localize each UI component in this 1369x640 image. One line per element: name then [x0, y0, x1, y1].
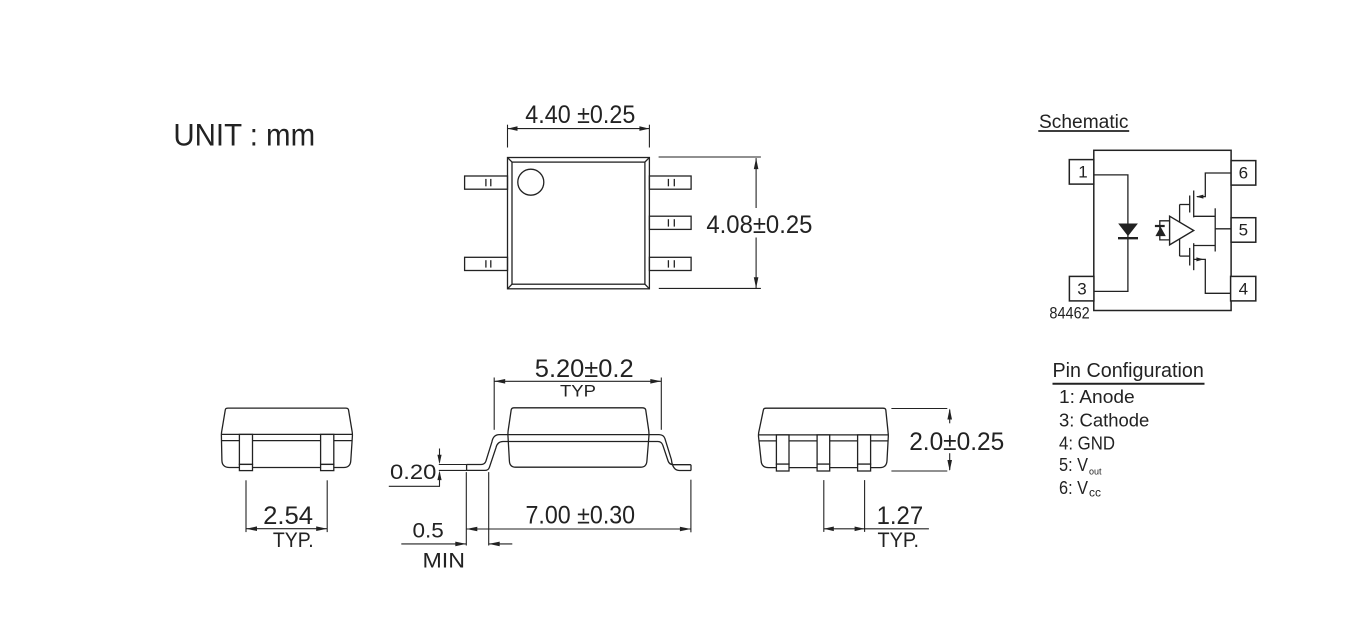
- dimension 5.20±0.2 TYP: [494, 355, 661, 430]
- top view right pin upper: [649, 176, 691, 189]
- top view right pin middle: [649, 216, 691, 229]
- wire pin1 to LED anode: [1094, 175, 1128, 292]
- dimension 4.08±0.25: [659, 157, 813, 288]
- svg-text:UNIT : mm: UNIT : mm: [173, 117, 315, 153]
- end view 2 pin left: [776, 435, 789, 471]
- LED D1: [1118, 224, 1138, 239]
- svg-text:84462: 84462: [1049, 305, 1089, 323]
- dimension 2.0±0.25: [891, 409, 1004, 472]
- pin 5 label: Vout: [1059, 454, 1102, 476]
- svg-text:3: 3: [1077, 280, 1086, 299]
- svg-text:5: 5: [1239, 221, 1248, 240]
- svg-text:0.5: 0.5: [413, 520, 444, 543]
- svg-text:7.00 ±0.30: 7.00 ±0.30: [526, 502, 636, 530]
- pin 3 box: [1069, 276, 1094, 301]
- schematic IC body box: [1094, 150, 1231, 310]
- lead left tip: [466, 465, 468, 471]
- svg-text:4: 4: [1239, 280, 1248, 299]
- MOSFET Q1 drain wire to pin 6: [1196, 173, 1231, 199]
- svg-text:0.20: 0.20: [390, 461, 436, 484]
- pin configuration heading: [1053, 360, 1205, 384]
- svg-text:TYP: TYP: [560, 382, 596, 401]
- dimension 2.54 TYP.: [246, 480, 327, 552]
- svg-text:Pin Configuration: Pin Configuration: [1053, 360, 1204, 382]
- svg-text:TYP.: TYP.: [878, 529, 920, 552]
- end view 2 pin right: [858, 435, 871, 471]
- svg-text:4.40 ±0.25: 4.40 ±0.25: [525, 101, 635, 129]
- MOSFET Q1 channel: [1193, 191, 1195, 218]
- svg-text:Schematic: Schematic: [1039, 112, 1129, 133]
- lead right tip: [690, 465, 692, 471]
- svg-text:1: Anode: 1: Anode: [1059, 386, 1135, 407]
- end view 2 pin middle: [817, 435, 830, 471]
- end view 2 parting line upper: [758, 434, 888, 436]
- svg-text:6: V: 6: V: [1059, 477, 1089, 498]
- photodiode PD: [1155, 226, 1166, 236]
- end view parting line upper: [221, 433, 352, 435]
- svg-text:6: 6: [1239, 163, 1248, 182]
- dimension 1.27 TYP.: [824, 480, 929, 552]
- pin 5 box: [1231, 218, 1256, 243]
- lead outer surface (gull wing): [467, 435, 691, 471]
- MOSFET Q2 gate: [1180, 248, 1190, 266]
- svg-text:1: 1: [1078, 162, 1087, 181]
- pin 4 box: [1231, 276, 1256, 301]
- schematic heading: [1038, 112, 1129, 133]
- amplifier U1: [1170, 216, 1194, 245]
- dimension 4.40 ±0.25: [508, 101, 650, 148]
- svg-text:MIN: MIN: [423, 550, 466, 573]
- pin 6 label: Vcc: [1059, 477, 1101, 499]
- pin 6 box: [1231, 161, 1256, 186]
- svg-text:5: V: 5: V: [1059, 454, 1089, 475]
- output rail node: [1214, 208, 1216, 251]
- svg-text:out: out: [1089, 467, 1102, 477]
- top view left pin upper: [465, 176, 508, 189]
- end view right pin: [321, 434, 334, 470]
- package top view body outline: [508, 158, 650, 289]
- top view right pin lower: [649, 257, 691, 270]
- MOSFET Q1 gate: [1180, 196, 1190, 213]
- top view left pin lower: [465, 257, 508, 270]
- side view body: [508, 408, 649, 467]
- gate rail wire: [1179, 205, 1181, 257]
- MOSFET Q2 drain wire to rail: [1194, 245, 1216, 247]
- photodiode loop wire: [1160, 221, 1170, 240]
- end view left pin: [239, 434, 252, 470]
- svg-text:4.08±0.25: 4.08±0.25: [706, 211, 812, 239]
- svg-text:2.54: 2.54: [263, 502, 313, 530]
- end view body (right): [758, 408, 888, 467]
- end view parting line lower: [221, 440, 352, 442]
- MOSFET Q2 source wire to pin 4: [1194, 257, 1231, 293]
- svg-text:TYP.: TYP.: [273, 529, 314, 552]
- pin 1 box: [1069, 160, 1094, 185]
- svg-text:5.20±0.2: 5.20±0.2: [535, 355, 634, 383]
- dimension 0.5 MIN: [401, 472, 512, 572]
- svg-text:cc: cc: [1089, 485, 1101, 499]
- dimension 0.20 lead thickness: [389, 449, 467, 487]
- lead inner surface: [467, 442, 691, 471]
- svg-text:2.0±0.25: 2.0±0.25: [909, 428, 1004, 456]
- pin 1 index circle: [518, 169, 544, 195]
- dimension 7.00 ±0.30: [466, 480, 691, 533]
- wire rail to pin 5: [1215, 228, 1231, 230]
- svg-text:3: Cathode: 3: Cathode: [1059, 409, 1149, 430]
- end view body (left): [221, 408, 352, 467]
- svg-text:4: GND: 4: GND: [1059, 433, 1115, 454]
- MOSFET Q2 channel: [1193, 243, 1195, 270]
- MOSFET Q1 source wire to rail: [1194, 215, 1216, 217]
- end view 2 parting line lower: [759, 440, 889, 442]
- svg-text:1.27: 1.27: [877, 502, 924, 530]
